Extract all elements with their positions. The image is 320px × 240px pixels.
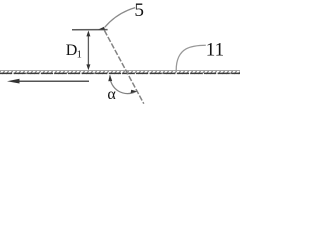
svg-text:11: 11 <box>206 39 224 60</box>
svg-text:α: α <box>107 86 116 103</box>
svg-text:5: 5 <box>134 0 144 21</box>
svg-text:1: 1 <box>77 50 82 61</box>
